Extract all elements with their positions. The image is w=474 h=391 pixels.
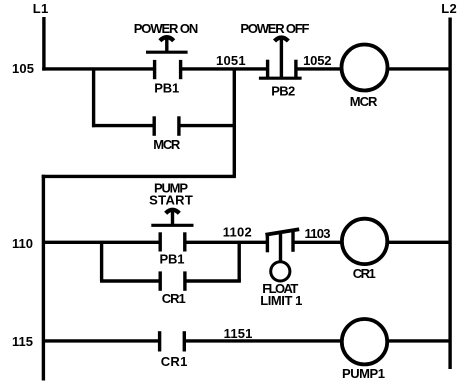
- svg-text:PUMP1: PUMP1: [342, 366, 385, 381]
- wire rung 110: PB1 to float switch (node 1102): [185, 241, 268, 244]
- contact MCR (seal-in, NO): [154, 116, 179, 136]
- pushbutton PB1 mushroom actuator: [146, 37, 188, 52]
- pushbutton PB2 contact bars (NC): [268, 60, 296, 80]
- wire rung 105: MCR coil to L2: [387, 67, 451, 70]
- svg-text:105: 105: [12, 61, 34, 76]
- wire MCR branch right: [179, 124, 236, 127]
- right rail L2: [448, 18, 451, 370]
- svg-text:1103: 1103: [305, 226, 331, 241]
- coil PUMP1: [342, 319, 387, 364]
- coil CR1: [342, 219, 387, 264]
- pushbutton PB1 contact bars (NO): [155, 60, 181, 79]
- svg-text:PB1: PB1: [154, 80, 179, 95]
- pushbutton PB1 (pump start) contact bars (NO): [160, 232, 185, 251]
- svg-text:L1: L1: [33, 1, 49, 16]
- wire connector to sub-rail: [42, 175, 236, 178]
- coil MCR: [342, 45, 388, 91]
- svg-text:CR1: CR1: [353, 266, 376, 281]
- wire branch 110 left vertical: [100, 241, 103, 281]
- svg-text:POWER OFF: POWER OFF: [240, 21, 309, 36]
- svg-text:MCR: MCR: [350, 94, 378, 109]
- wire rung 115: rail to CR1: [42, 339, 160, 342]
- wire rung 110: CR1 coil to L2: [387, 241, 450, 244]
- wire rung 115: PUMP1 coil to L2: [387, 339, 450, 342]
- svg-text:1151: 1151: [224, 326, 253, 341]
- wire rung 110: float switch to CR1 coil: [293, 241, 342, 244]
- wire rung 105: PB1 to PB2 (node 1051): [181, 67, 268, 70]
- pushbutton PB1 (pump start) mushroom actuator: [151, 210, 193, 226]
- sub-rail (MCR controlled): [42, 175, 45, 381]
- contact CR1 (rung 115, NO): [160, 331, 185, 351]
- wire branch 105 right vertical (node 1051 down): [233, 68, 236, 177]
- svg-text:115: 115: [12, 334, 33, 349]
- wire MCR branch left: [92, 124, 154, 127]
- svg-text:1102: 1102: [223, 225, 252, 240]
- svg-text:PB2: PB2: [271, 83, 295, 98]
- wire rung 105: rail to PB1: [42, 67, 154, 70]
- svg-text:L2: L2: [441, 1, 457, 16]
- svg-text:1052: 1052: [303, 53, 331, 68]
- wire branch 110 right vertical (node 1102 down): [237, 241, 240, 281]
- wire rung 105: PB2 to MCR coil: [296, 67, 343, 70]
- svg-text:1051: 1051: [216, 53, 246, 68]
- wire rung 110: rail to PB1: [42, 241, 160, 244]
- svg-text:CR1: CR1: [161, 354, 188, 369]
- pushbutton PB2 mushroom actuator: [259, 37, 302, 78]
- wire branch 105 left vertical: [92, 68, 95, 128]
- svg-text:LIMIT 1: LIMIT 1: [260, 293, 302, 308]
- wire rung 115: CR1 to PUMP1 coil (node 1151): [184, 339, 342, 342]
- left rail L1: [42, 17, 45, 71]
- wire CR1 branch right: [185, 279, 241, 282]
- svg-text:START: START: [149, 193, 193, 208]
- svg-text:PB1: PB1: [160, 251, 185, 266]
- contact CR1 (seal-in, NO): [160, 271, 185, 290]
- svg-text:110: 110: [12, 236, 33, 251]
- svg-text:CR1: CR1: [162, 291, 186, 306]
- svg-text:POWER ON: POWER ON: [134, 21, 199, 36]
- wire CR1 branch left: [100, 279, 160, 282]
- svg-text:MCR: MCR: [153, 137, 181, 152]
- float switch FLOAT LIMIT 1 (NC): [265, 229, 299, 281]
